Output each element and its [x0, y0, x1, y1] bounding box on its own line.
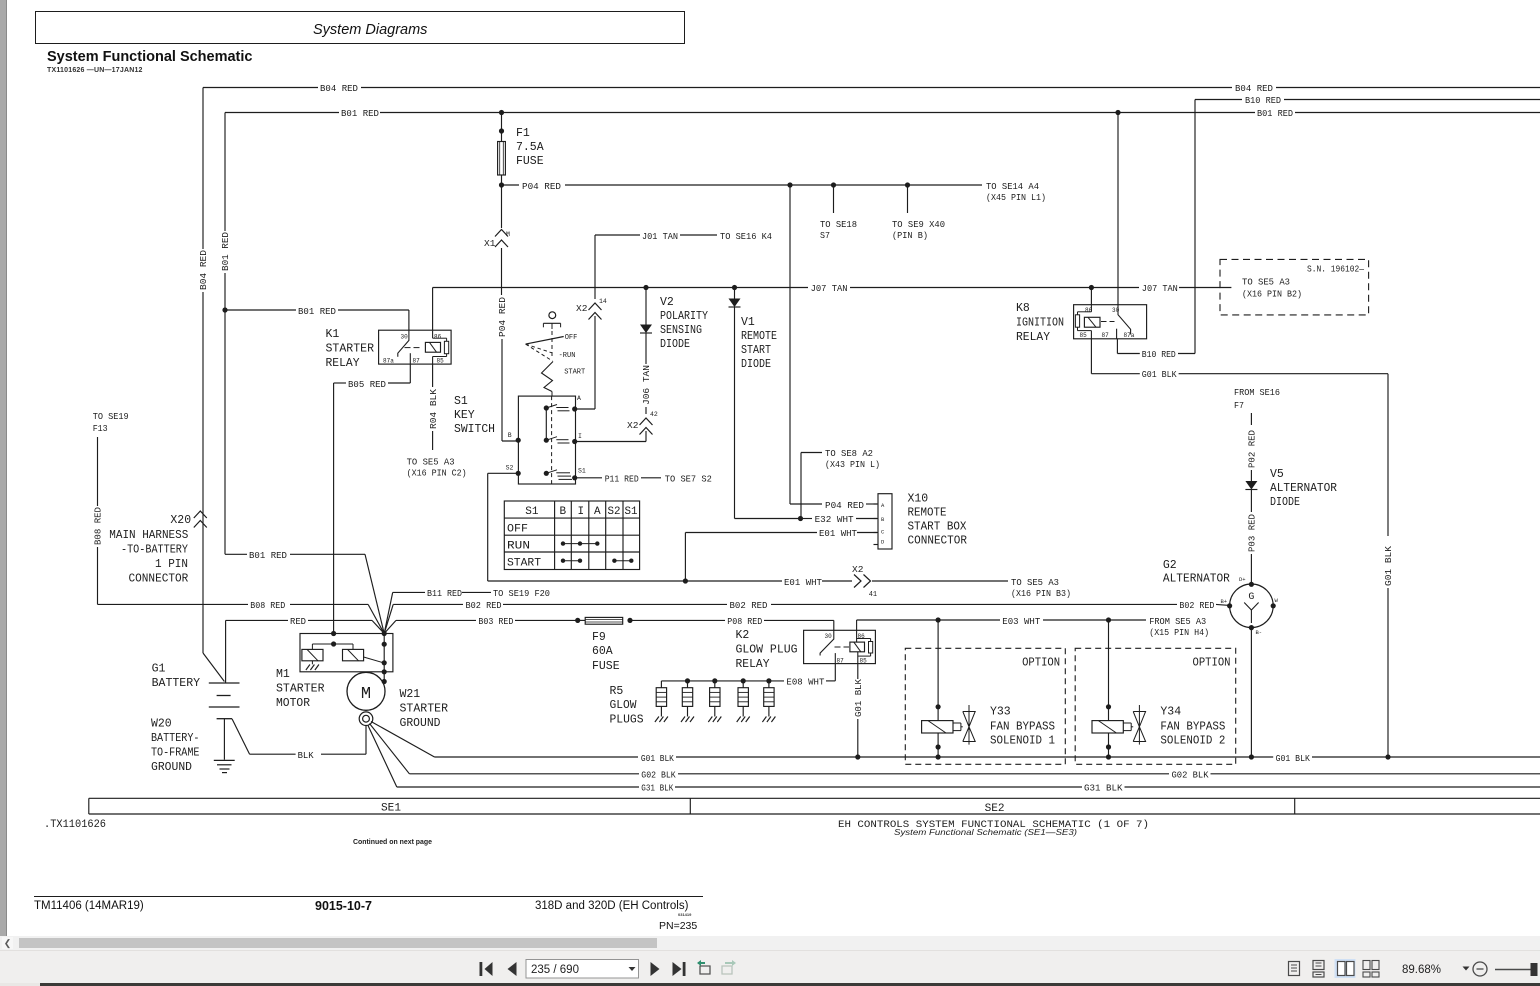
svg-text:(PIN B): (PIN B) [892, 230, 928, 241]
ground W20 battery to frame ground [151, 718, 235, 775]
wire B10 RED [1117, 95, 1540, 360]
svg-text:B04 RED: B04 RED [198, 250, 209, 290]
wire B03 RED [396, 616, 580, 627]
page number box [526, 960, 639, 979]
wire G01 BLK from K8 [1091, 339, 1394, 757]
diode V1 remote start [729, 288, 778, 519]
svg-text:TO SE14 A4: TO SE14 A4 [986, 181, 1039, 192]
svg-text:F9: F9 [592, 631, 606, 644]
next view icon (disabled) [722, 960, 736, 974]
footer rule [34, 896, 703, 897]
fuse F9 60A [578, 617, 633, 673]
svg-text:A: A [577, 395, 581, 402]
svg-text:X20: X20 [170, 514, 191, 527]
svg-text:F13: F13 [93, 423, 108, 434]
svg-text:S1: S1 [625, 506, 638, 518]
svg-text:OPTION: OPTION [1022, 657, 1060, 670]
svg-text:X2: X2 [576, 303, 588, 314]
svg-text:W20: W20 [151, 718, 172, 731]
svg-text:START: START [741, 344, 771, 357]
svg-text:B10 RED: B10 RED [1142, 349, 1176, 360]
svg-text:GLOW: GLOW [610, 699, 637, 712]
svg-text:D+: D+ [1239, 576, 1246, 583]
svg-text:G31 BLK: G31 BLK [1084, 783, 1123, 794]
svg-text:1 PIN: 1 PIN [155, 558, 188, 571]
switch S1 key switch [454, 312, 586, 484]
left window scrollbar [0, 0, 7, 937]
svg-text:S1: S1 [525, 506, 539, 518]
svg-text:85: 85 [1080, 332, 1088, 339]
svg-text:R5: R5 [610, 685, 624, 698]
svg-text:MOTOR: MOTOR [276, 697, 310, 710]
wire B01 RED [220, 108, 1540, 634]
svg-text:S2: S2 [608, 506, 621, 518]
svg-text:87: 87 [413, 358, 421, 365]
svg-text:G2: G2 [1163, 559, 1177, 572]
svg-text:G: G [1248, 592, 1254, 603]
wire P04 RED [499, 181, 1046, 511]
svg-text:F7: F7 [1234, 400, 1244, 411]
svg-text:SOLENOID 2: SOLENOID 2 [1160, 735, 1225, 748]
svg-text:G01 BLK: G01 BLK [853, 679, 864, 717]
svg-text:W: W [1275, 597, 1279, 604]
svg-text:G01 BLK: G01 BLK [1383, 546, 1394, 586]
svg-text:B01 RED: B01 RED [249, 550, 287, 561]
fuse F1 [498, 113, 544, 186]
layout icon two page continuous [1363, 961, 1379, 978]
svg-text:TO SE19 F20: TO SE19 F20 [493, 588, 550, 599]
svg-text:(X45 PIN L1): (X45 PIN L1) [986, 192, 1046, 203]
wire J07 TAN [433, 283, 1232, 331]
svg-text:85: 85 [437, 358, 445, 365]
svg-text:BATTERY: BATTERY [152, 677, 201, 690]
svg-text:P04 RED: P04 RED [825, 500, 864, 511]
svg-text:B01 RED: B01 RED [1257, 108, 1293, 119]
generator G2 alternator [1163, 559, 1279, 757]
svg-text:E08 WHT: E08 WHT [786, 677, 824, 688]
svg-text:P02 RED: P02 RED [1247, 430, 1258, 468]
svg-text:TO SE5 A3: TO SE5 A3 [1011, 577, 1059, 588]
footer text TM11406 [34, 900, 144, 912]
svg-text:G1: G1 [152, 663, 166, 676]
svg-text:14: 14 [599, 298, 607, 305]
svg-text:M1: M1 [276, 668, 290, 681]
wire B02 RED [384, 600, 1229, 634]
motor M1 starter motor and solenoid [276, 631, 393, 726]
svg-text:P08 RED: P08 RED [727, 616, 762, 627]
svg-text:J07 TAN: J07 TAN [811, 283, 848, 294]
svg-text:87a: 87a [1124, 332, 1135, 339]
svg-text:BATTERY-: BATTERY- [151, 732, 200, 745]
svg-text:60A: 60A [592, 645, 613, 658]
diode V2 polarity sensing [640, 288, 708, 415]
wire R04 BLK [407, 364, 467, 478]
svg-text:X2: X2 [627, 420, 639, 431]
svg-text:B11 RED: B11 RED [427, 588, 462, 599]
svg-text:V2: V2 [660, 296, 674, 309]
wire E03 WHT [857, 616, 1210, 638]
wire E32 WHT [735, 514, 878, 525]
page title [47, 49, 252, 65]
relay K1 starter relay [326, 328, 452, 370]
svg-text:-TO-BATTERY: -TO-BATTERY [121, 544, 188, 557]
svg-text:RELAY: RELAY [736, 658, 770, 671]
svg-text:S1: S1 [578, 468, 586, 475]
svg-text:KEY: KEY [454, 409, 475, 422]
resistors R5 glow plugs [610, 681, 776, 727]
diode V5 alternator diode [1245, 468, 1337, 509]
svg-text:DIODE: DIODE [1270, 496, 1300, 509]
svg-text:I: I [578, 506, 585, 518]
svg-text:STARTER: STARTER [276, 683, 325, 696]
svg-text:GLOW PLUG: GLOW PLUG [736, 644, 798, 657]
svg-text:X1: X1 [484, 238, 496, 249]
wire E08 WHT [661, 664, 835, 688]
svg-text:FAN BYPASS: FAN BYPASS [1160, 721, 1225, 734]
wire J01 TAN [575, 231, 773, 409]
horizontal scrollbar [0, 936, 1540, 950]
svg-text:STARTER: STARTER [400, 703, 449, 716]
svg-text:B08 RED: B08 RED [93, 507, 104, 545]
connector X10 remote start box [874, 493, 968, 550]
wire BLK [232, 719, 366, 761]
svg-text:I: I [578, 433, 582, 440]
svg-text:P04 RED: P04 RED [522, 181, 561, 192]
svg-text:TO SE9 X40: TO SE9 X40 [892, 219, 945, 230]
svg-text:SOLENOID 1: SOLENOID 1 [990, 735, 1055, 748]
svg-text:B01 RED: B01 RED [298, 306, 336, 317]
header box System Diagrams [35, 11, 685, 44]
svg-text:87: 87 [1102, 332, 1110, 339]
battery G1 [152, 663, 240, 719]
svg-text:G01 BLK: G01 BLK [641, 753, 674, 764]
svg-text:FUSE: FUSE [516, 155, 544, 168]
svg-text:235 / 690: 235 / 690 [531, 964, 579, 976]
bottom dark strip [0, 983, 1540, 986]
svg-text:M: M [361, 685, 371, 704]
svg-text:V5: V5 [1270, 468, 1284, 481]
svg-text:S.N. 196102—: S.N. 196102— [1307, 264, 1364, 275]
svg-text:B05 RED: B05 RED [348, 379, 386, 390]
wire B04 RED [198, 83, 1540, 682]
connector X2 pin 42 [575, 411, 658, 442]
svg-text:30: 30 [401, 334, 409, 341]
svg-text:FROM SE16: FROM SE16 [1234, 387, 1280, 398]
wire RED battery to starter [226, 616, 396, 683]
svg-text:41: 41 [869, 591, 877, 599]
svg-text:MAIN HARNESS: MAIN HARNESS [109, 529, 188, 542]
svg-text:.TX1101626: .TX1101626 [44, 819, 106, 831]
wire G31 BLK bus [397, 783, 1540, 794]
svg-text:X2: X2 [852, 564, 864, 575]
svg-text:42: 42 [650, 411, 658, 418]
wire E01 WHT [488, 473, 877, 588]
svg-text:V1: V1 [741, 316, 755, 329]
svg-text:(X43 PIN L): (X43 PIN L) [825, 459, 880, 470]
svg-text:GROUND: GROUND [400, 717, 441, 730]
wire B05 RED [334, 364, 411, 633]
svg-text:(X16 PIN C2): (X16 PIN C2) [407, 468, 467, 479]
svg-text:30: 30 [825, 633, 833, 640]
svg-text:P03 RED: P03 RED [1247, 514, 1258, 552]
svg-text:TO SE19: TO SE19 [93, 411, 129, 422]
svg-text:F1: F1 [516, 127, 530, 140]
svg-text:J06 TAN: J06 TAN [641, 365, 652, 405]
svg-text:DIODE: DIODE [741, 358, 771, 371]
connector X2 pin 41 [852, 564, 1071, 599]
node EH controls title [838, 819, 1149, 837]
svg-text:B: B [881, 516, 885, 523]
svg-text:OFF: OFF [565, 334, 578, 342]
ground W21 starter ground [368, 688, 448, 787]
svg-text:E01 WHT: E01 WHT [819, 528, 857, 539]
svg-text:TO SE5 A3: TO SE5 A3 [407, 457, 455, 468]
svg-text:REMOTE: REMOTE [908, 506, 947, 519]
svg-text:FAN BYPASS: FAN BYPASS [990, 721, 1055, 734]
svg-text:CONNECTOR: CONNECTOR [908, 534, 968, 547]
last page button [673, 962, 686, 976]
svg-text:RELAY: RELAY [1016, 331, 1050, 344]
svg-text:D: D [881, 539, 885, 546]
wire P03 RED [1247, 490, 1258, 585]
svg-text:85: 85 [860, 657, 868, 664]
svg-text:PLUGS: PLUGS [610, 714, 644, 727]
svg-text:B+: B+ [1221, 598, 1228, 605]
svg-text:B04 RED: B04 RED [1235, 83, 1273, 94]
svg-text:J01 TAN: J01 TAN [642, 231, 678, 242]
svg-text:J07 TAN: J07 TAN [1142, 283, 1178, 294]
svg-text:REMOTE: REMOTE [741, 330, 777, 343]
svg-text:E01 WHT: E01 WHT [784, 577, 822, 588]
svg-text:B01 RED: B01 RED [220, 232, 231, 271]
node TX1101626 [44, 819, 106, 831]
layout icon single page [1289, 962, 1300, 976]
svg-text:B01 RED: B01 RED [341, 108, 379, 119]
svg-text:TO-FRAME: TO-FRAME [151, 747, 200, 760]
svg-text:A: A [594, 506, 601, 518]
svg-text:STARTER: STARTER [326, 343, 375, 356]
svg-text:B: B [560, 506, 567, 518]
svg-text:Continued on next page: Continued on next page [353, 839, 432, 846]
svg-text:FUSE: FUSE [592, 660, 620, 673]
svg-text:X10: X10 [908, 493, 929, 506]
wire P08 RED [630, 616, 834, 630]
svg-text:Y33: Y33 [990, 706, 1011, 719]
svg-text:G31 BLK: G31 BLK [641, 783, 673, 794]
svg-text:B-: B- [1256, 629, 1263, 636]
svg-text:SWITCH: SWITCH [454, 423, 495, 436]
svg-text:S7: S7 [820, 230, 830, 241]
svg-text:-RUN: -RUN [559, 352, 576, 360]
svg-text:START: START [507, 558, 541, 570]
wire B08 RED [93, 411, 385, 634]
svg-text:S2: S2 [506, 465, 514, 472]
svg-text:CONNECTOR: CONNECTOR [129, 573, 189, 586]
wire B11 RED [384, 588, 550, 634]
svg-text:(X16 PIN B2): (X16 PIN B2) [1242, 289, 1302, 300]
svg-text:RELAY: RELAY [326, 357, 360, 370]
layout icon continuous [1313, 961, 1324, 978]
svg-text:FROM SE5 A3: FROM SE5 A3 [1149, 616, 1206, 627]
svg-text:BLK: BLK [298, 750, 314, 761]
svg-text:R04 BLK: R04 BLK [428, 389, 439, 429]
svg-text:TO SE18: TO SE18 [820, 219, 857, 230]
svg-text:7.5A: 7.5A [516, 141, 544, 154]
svg-text:87a: 87a [383, 358, 394, 365]
svg-text:START: START [564, 369, 585, 377]
wire P02 RED from SE16 F7 [1234, 387, 1280, 481]
svg-text:POLARITY: POLARITY [660, 310, 708, 323]
svg-text:B04 RED: B04 RED [320, 83, 358, 94]
svg-text:START BOX: START BOX [908, 520, 967, 533]
node S.N. 196102 box [1220, 259, 1369, 315]
svg-text:B02 RED: B02 RED [730, 600, 768, 611]
svg-text:B03 RED: B03 RED [478, 616, 513, 627]
wire to SE8 A2 [801, 448, 880, 519]
toolbar [0, 950, 1540, 983]
svg-text:P11 RED: P11 RED [605, 474, 639, 485]
layout icon two pages (active) [1335, 959, 1356, 978]
wire G01 BLK from K2 85 [853, 664, 864, 757]
svg-text:TO SE16 K4: TO SE16 K4 [720, 231, 772, 242]
svg-text:GROUND: GROUND [151, 761, 192, 774]
node continued note [353, 839, 432, 846]
wire G02 BLK bus [409, 770, 1540, 781]
svg-text:Y34: Y34 [1160, 706, 1181, 719]
svg-text:TO SE7 S2: TO SE7 S2 [665, 474, 712, 485]
next page button [651, 962, 660, 976]
svg-text:OFF: OFF [507, 524, 528, 536]
connector X1 pin M [484, 230, 518, 442]
svg-text:B02 RED: B02 RED [1179, 600, 1214, 611]
relay K8 ignition relay [1016, 113, 1147, 345]
first page button [480, 962, 493, 976]
svg-text:System Functional Schematic (S: System Functional Schematic (SE1—SE3) [894, 828, 1077, 837]
svg-text:SE2: SE2 [985, 803, 1005, 815]
svg-text:G01 BLK: G01 BLK [1276, 753, 1311, 764]
solenoid Y34 fan bypass 2 [1075, 620, 1236, 764]
svg-text:ALTERNATOR: ALTERNATOR [1270, 482, 1337, 495]
svg-text:RED: RED [290, 616, 306, 627]
relay K2 glow plug relay [736, 620, 876, 671]
svg-text:K8: K8 [1016, 302, 1030, 315]
svg-text:B02 RED: B02 RED [466, 600, 502, 611]
svg-text:RUN: RUN [507, 541, 530, 553]
solenoid Y33 fan bypass 1 [905, 620, 1065, 764]
svg-text:87: 87 [837, 657, 845, 664]
table S1 positions [504, 501, 639, 570]
connector X20 main harness [109, 511, 207, 586]
svg-text:OPTION: OPTION [1193, 657, 1231, 670]
svg-text:86: 86 [434, 334, 442, 341]
svg-text:89.68%: 89.68% [1402, 964, 1441, 976]
svg-text:G02 BLK: G02 BLK [641, 770, 676, 781]
svg-text:DIODE: DIODE [660, 338, 690, 351]
wire G01 BLK bus [435, 753, 1540, 764]
previous view icon [697, 960, 710, 974]
svg-text:E03 WHT: E03 WHT [1002, 616, 1040, 627]
svg-text:S1: S1 [454, 395, 468, 408]
svg-text:(X16 PIN B3): (X16 PIN B3) [1011, 588, 1071, 599]
svg-text:SE1: SE1 [381, 803, 401, 815]
svg-text:(X15 PIN H4): (X15 PIN H4) [1149, 627, 1209, 638]
svg-text:G02 BLK: G02 BLK [1172, 770, 1209, 781]
svg-text:C: C [881, 529, 885, 536]
svg-text:B10 RED: B10 RED [1245, 95, 1281, 106]
svg-text:TO SE5 A3: TO SE5 A3 [1242, 277, 1290, 288]
svg-text:TO SE8 A2: TO SE8 A2 [825, 448, 873, 459]
svg-text:B: B [508, 432, 512, 439]
node SE1 SE2 bars [89, 798, 1540, 815]
svg-text:K1: K1 [326, 328, 340, 341]
svg-text:K2: K2 [736, 629, 750, 642]
wire P11 RED [575, 474, 712, 485]
svg-text:IGNITION: IGNITION [1016, 317, 1064, 330]
svg-text:E32 WHT: E32 WHT [815, 514, 854, 525]
svg-text:G01 BLK: G01 BLK [1142, 369, 1177, 380]
prev page button [508, 962, 517, 976]
svg-text:W21: W21 [400, 688, 421, 701]
svg-text:B08 RED: B08 RED [250, 600, 285, 611]
svg-text:P04 RED: P04 RED [497, 297, 508, 337]
svg-text:ALTERNATOR: ALTERNATOR [1163, 573, 1230, 586]
svg-text:SENSING: SENSING [660, 324, 702, 337]
svg-text:A: A [881, 502, 885, 509]
